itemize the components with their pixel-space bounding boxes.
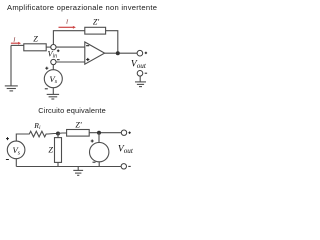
terminal - (equivalent circuit output)	[121, 164, 126, 169]
polarity mark - (equiv output bottom)	[128, 165, 130, 167]
wire: Z bottom to rail	[57, 162, 59, 166]
wire: input left horizontal segment	[11, 44, 24, 46]
polarity mark - (non-inverting node)	[57, 59, 60, 61]
wire: junction A to Z (shunt)	[57, 134, 59, 138]
wire: Vs top to rail	[16, 134, 27, 141]
wire: op-amp output	[105, 52, 138, 54]
ground (output)	[135, 82, 146, 87]
polarity mark + (Vs top)	[45, 67, 48, 70]
junction: output/feedback dot	[116, 51, 120, 55]
wire: R_i to junction A	[48, 133, 58, 136]
wire: junction A to Z'	[58, 132, 67, 135]
impedance Z' (feedback, top circuit)	[85, 27, 106, 34]
polarity mark + (controlled source top)	[91, 140, 94, 143]
terminal + (V_out top, top circuit)	[137, 50, 143, 56]
wire: rail stub to ground	[77, 167, 79, 171]
resistor R_i (zigzag)	[27, 131, 48, 137]
wire: Vs to ground	[52, 88, 54, 95]
source Vs (top circuit)	[44, 70, 62, 88]
polarity mark - (Vs bottom)	[45, 88, 48, 90]
ground (equivalent circuit)	[73, 170, 83, 175]
svg-text:Z: Z	[33, 34, 38, 43]
wire: left branch from Z down to ground	[10, 45, 12, 86]
svg-text:Z': Z'	[75, 120, 81, 129]
wire: non-inverting node to op-amp plus input	[56, 61, 85, 63]
svg-text:Amplificatore operazionale non: Amplificatore operazionale non invertent…	[7, 3, 157, 12]
node V- (inverting input terminal circle)	[51, 44, 56, 49]
wire: bottom rail (equivalent circuit)	[16, 166, 121, 168]
wire: Z to inverting node	[46, 46, 51, 48]
op-amp inverting input mark -	[86, 45, 89, 47]
controlled source (dependent source, equivalent circuit)	[90, 142, 109, 161]
junction node B (source tap)	[97, 131, 101, 135]
impedance Z (shunt, equivalent circuit)	[55, 138, 62, 163]
polarity mark + (equiv Vs top)	[6, 137, 9, 140]
junction node A (divider node)	[56, 132, 60, 136]
wire: controlled source bottom to rail	[98, 162, 100, 167]
polarity mark + (inverting node)	[57, 50, 60, 53]
svg-text:Circuito equivalente: Circuito equivalente	[38, 106, 106, 115]
polarity mark - (output terminal)	[145, 72, 147, 74]
terminal - (V_out bottom, top circuit)	[137, 71, 143, 77]
ground (Vs, top circuit)	[47, 94, 59, 99]
polarity mark - (equiv Vs bottom)	[6, 159, 9, 161]
current arrow I (feedback)	[59, 26, 76, 29]
terminal + (equivalent circuit output)	[121, 130, 126, 135]
wire: inverting node to op-amp minus input	[56, 46, 85, 48]
wire: riser from inverting node to feedback rail	[53, 31, 84, 45]
source Vs (equivalent circuit)	[7, 141, 25, 159]
svg-text:Z: Z	[48, 145, 53, 154]
svg-text:Z': Z'	[93, 18, 99, 27]
current arrow I (input)	[11, 42, 21, 45]
svg-text:Vout: Vout	[118, 145, 134, 156]
wire: Z' to + terminal	[89, 132, 121, 134]
wire: junction B down to controlled source	[98, 133, 100, 143]
polarity mark + (output terminal)	[145, 52, 147, 54]
polarity mark - (controlled source bottom)	[93, 161, 96, 163]
polarity mark + (equiv output top)	[128, 132, 130, 134]
impedance Z' (series, equivalent circuit)	[67, 130, 90, 137]
ground (left input branch)	[5, 86, 18, 91]
op-amp U1	[85, 42, 105, 64]
wire: Vs bottom to rail	[15, 159, 17, 167]
wire: output - terminal to ground	[139, 76, 141, 82]
wire: Z' to output junction	[106, 31, 118, 54]
op-amp non-inverting input mark +	[86, 58, 89, 61]
impedance Z (input, top circuit)	[24, 44, 46, 51]
svg-text:Vout: Vout	[131, 59, 147, 70]
wire: non-inverting node down to Vs	[52, 65, 54, 70]
node V+ (non-inverting input terminal circle)	[51, 59, 56, 64]
